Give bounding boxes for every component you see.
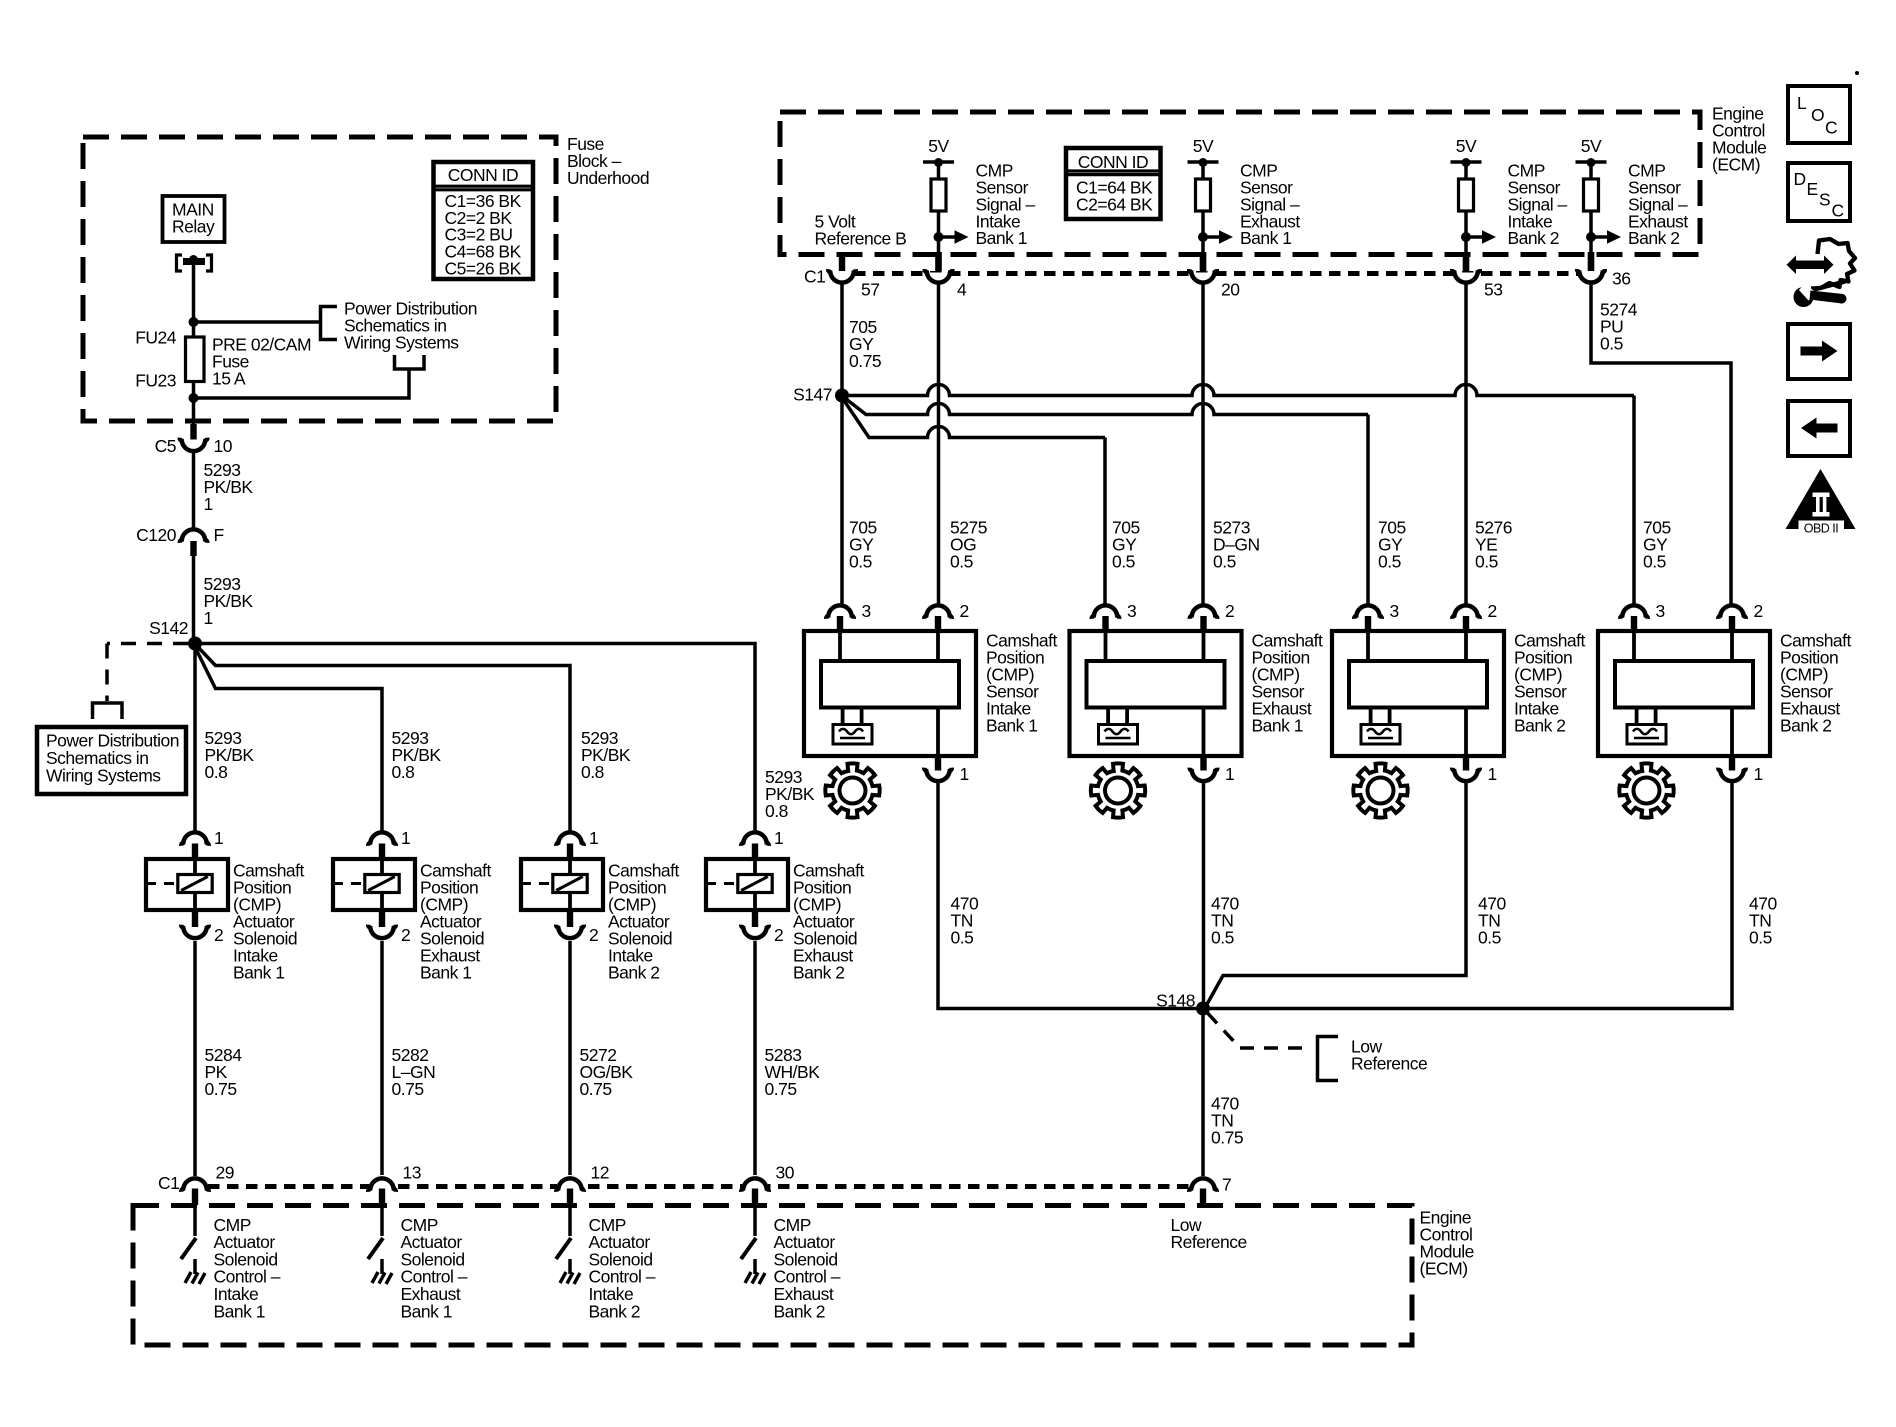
svg-text:Wiring Systems: Wiring Systems [344,332,459,352]
svg-text:0.5: 0.5 [1378,551,1401,571]
svg-text:0.8: 0.8 [765,801,788,821]
svg-text:Bank 1: Bank 1 [1252,715,1303,735]
svg-text:Bank 2: Bank 2 [589,1301,640,1321]
svg-text:Bank 1: Bank 1 [214,1301,265,1321]
svg-text:L: L [1797,93,1807,113]
svg-text:E: E [1807,179,1818,199]
svg-text:0.5: 0.5 [1112,551,1135,571]
svg-text:Bank 1: Bank 1 [1240,228,1291,248]
svg-text:7: 7 [1222,1174,1231,1194]
svg-text:0.5: 0.5 [1749,927,1772,947]
svg-text:0.5: 0.5 [950,551,973,571]
svg-text:0.75: 0.75 [205,1079,237,1099]
svg-text:Bank 1: Bank 1 [420,962,471,982]
svg-text:Bank 1: Bank 1 [233,962,284,982]
svg-text:Reference B: Reference B [815,228,907,248]
svg-text:Bank 2: Bank 2 [774,1301,825,1321]
svg-text:C1: C1 [158,1173,179,1193]
svg-text:0.75: 0.75 [1211,1127,1243,1147]
svg-text:30: 30 [776,1162,795,1182]
svg-text:Relay: Relay [172,216,215,236]
svg-text:C: C [1825,117,1837,137]
svg-text:Bank 2: Bank 2 [1780,715,1831,735]
svg-text:53: 53 [1484,279,1502,299]
svg-text:10: 10 [214,436,233,456]
svg-text:Bank 1: Bank 1 [401,1301,452,1321]
svg-text:S148: S148 [1156,990,1195,1010]
svg-text:36: 36 [1612,268,1630,288]
svg-text:0.5: 0.5 [1600,333,1623,353]
svg-text:C120: C120 [136,525,177,545]
svg-text:S: S [1819,189,1830,209]
svg-text:0.5: 0.5 [951,927,974,947]
svg-text:C2=64 BK: C2=64 BK [1076,194,1153,214]
svg-text:4: 4 [957,279,967,299]
svg-text:0.5: 0.5 [1478,927,1501,947]
svg-text:1: 1 [204,494,213,514]
svg-text:Reference: Reference [1171,1232,1247,1252]
svg-text:CONN ID: CONN ID [448,165,518,185]
svg-text:13: 13 [403,1162,421,1182]
svg-text:S142: S142 [149,618,188,638]
svg-text:(ECM): (ECM) [1712,154,1760,174]
svg-text:Underhood: Underhood [567,168,649,188]
svg-text:C5: C5 [155,436,176,456]
svg-text:FU23: FU23 [135,370,176,390]
svg-text:O: O [1811,105,1824,125]
svg-text:(ECM): (ECM) [1420,1258,1468,1278]
svg-text:0.75: 0.75 [392,1079,424,1099]
svg-text:Wiring Systems: Wiring Systems [46,765,161,785]
svg-text:0.5: 0.5 [849,551,872,571]
svg-text:0.8: 0.8 [581,762,604,782]
svg-text:0.5: 0.5 [1211,927,1234,947]
svg-text:D: D [1794,169,1806,189]
svg-text:Bank 1: Bank 1 [976,228,1027,248]
svg-text:0.5: 0.5 [1213,551,1236,571]
svg-text:CONN ID: CONN ID [1078,152,1148,172]
svg-text:0.75: 0.75 [765,1079,797,1099]
svg-text:15 A: 15 A [212,368,246,388]
svg-text:C: C [1832,200,1844,220]
svg-text:20: 20 [1221,279,1240,299]
svg-text:29: 29 [216,1162,234,1182]
svg-text:C1: C1 [804,266,825,286]
svg-text:0.5: 0.5 [1643,551,1666,571]
svg-text:0.75: 0.75 [580,1079,612,1099]
svg-text:OBD II: OBD II [1804,522,1839,536]
svg-text:0.8: 0.8 [205,762,228,782]
svg-text:S147: S147 [793,384,832,404]
svg-text:0.5: 0.5 [1475,551,1498,571]
svg-text:12: 12 [591,1162,609,1182]
svg-text:C5=26 BK: C5=26 BK [445,258,522,278]
svg-text:F: F [214,525,224,545]
svg-text:Reference: Reference [1351,1054,1427,1074]
svg-text:57: 57 [861,279,879,299]
svg-text:Bank 1: Bank 1 [986,715,1037,735]
svg-text:Bank 2: Bank 2 [1508,228,1559,248]
svg-text:Bank 2: Bank 2 [793,962,844,982]
svg-text:1: 1 [204,608,213,628]
svg-text:0.75: 0.75 [849,351,881,371]
svg-text:0.8: 0.8 [392,762,415,782]
svg-text:Bank 2: Bank 2 [608,962,659,982]
svg-text:Bank 2: Bank 2 [1514,715,1565,735]
svg-text:Bank 2: Bank 2 [1628,228,1679,248]
svg-text:FU24: FU24 [135,327,177,347]
